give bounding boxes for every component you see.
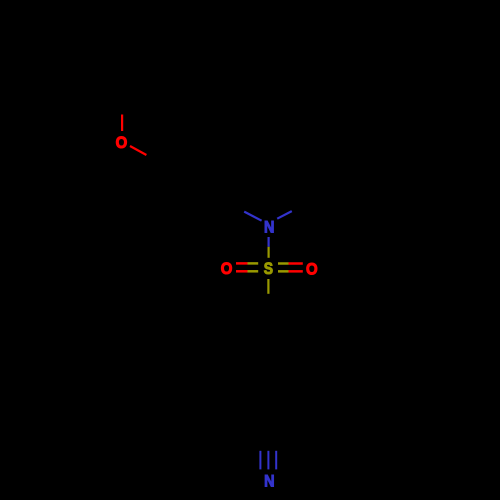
node O (methoxy oxygen label) bbox=[116, 134, 128, 152]
wire: S=O left double bond (S half, olive) bbox=[248, 262, 259, 265]
svg-text:O: O bbox=[306, 261, 318, 279]
node N (ring nitrogen label) bbox=[264, 218, 274, 236]
svg-text:S: S bbox=[264, 260, 273, 279]
wire: O-aryl bond (O half, red, diagonal) bbox=[130, 146, 146, 155]
wire: S=O right double bond (O half, red) bbox=[289, 262, 303, 265]
wire: S=O left double bond (O half, red) bbox=[236, 262, 248, 265]
svg-text:O: O bbox=[116, 134, 128, 152]
node O (right sulfonyl oxygen label) bbox=[306, 261, 318, 279]
wire: S=O right double bond (S half, olive) bbox=[278, 262, 289, 265]
wire: aryl-N bond (N half, blue, diagonal) bbox=[244, 212, 261, 221]
svg-text:N: N bbox=[264, 473, 274, 491]
wire: N-S bond (S half, olive, vertical) bbox=[268, 247, 270, 258]
svg-text:O: O bbox=[221, 260, 233, 278]
wire: S-aryl bond (S half, olive, vertical) bbox=[267, 279, 269, 294]
node S (sulfur label) bbox=[264, 260, 273, 279]
node O (left sulfonyl oxygen label) bbox=[221, 260, 233, 278]
wire: nitrile triple bond (N halves, blue, three lines) bbox=[259, 451, 261, 470]
wire: methyl-O bond (O half, red, vertical) bbox=[121, 115, 123, 132]
wire: N-S bond (N half, blue, vertical) bbox=[268, 237, 270, 247]
wire: N-C bond right (N half, blue, diagonal) bbox=[277, 211, 292, 219]
node N (nitrile nitrogen label) bbox=[264, 473, 274, 491]
svg-text:N: N bbox=[264, 218, 274, 236]
